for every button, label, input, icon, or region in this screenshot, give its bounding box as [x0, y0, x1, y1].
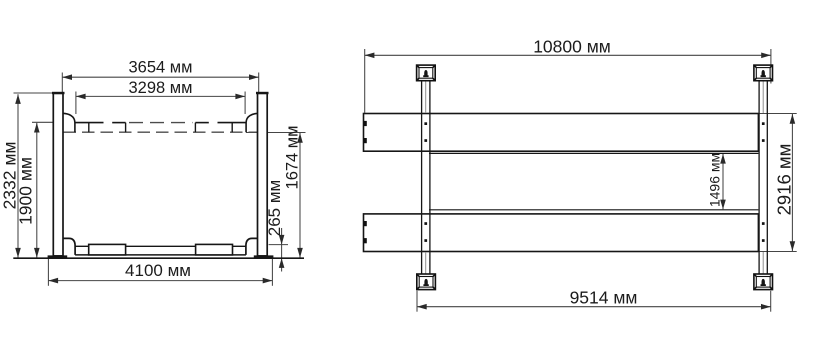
svg-text:265 мм: 265 мм	[265, 180, 284, 236]
svg-text:3654 мм: 3654 мм	[129, 59, 193, 77]
svg-text:3298 мм: 3298 мм	[129, 79, 193, 97]
svg-text:10800 мм: 10800 мм	[533, 37, 611, 57]
svg-text:1900 мм: 1900 мм	[15, 157, 35, 225]
svg-text:1674 мм: 1674 мм	[284, 126, 302, 190]
svg-text:1496 мм: 1496 мм	[707, 153, 723, 207]
svg-text:9514 мм: 9514 мм	[570, 287, 638, 307]
svg-text:2916 мм: 2916 мм	[774, 144, 795, 216]
svg-text:4100 мм: 4100 мм	[125, 261, 191, 280]
